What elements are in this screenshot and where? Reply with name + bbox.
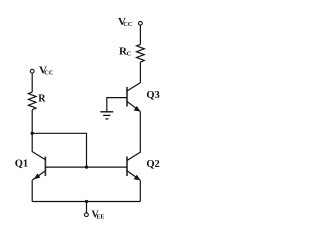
label VCC (left): [39, 65, 54, 77]
transistor Q1 (mirrored): [32, 151, 46, 180]
terminal VCC (left): [30, 69, 34, 73]
svg-text:R: R: [38, 94, 46, 105]
svg-text:C: C: [127, 50, 132, 57]
svg-text:CC: CC: [123, 21, 133, 28]
resistor RC: [137, 44, 145, 62]
label RC: [119, 46, 132, 58]
wire Q2 emitter down: [139, 180, 141, 201]
node A junction dot: [31, 132, 34, 135]
svg-text:Q1: Q1: [15, 159, 28, 170]
label Q1: [15, 159, 28, 170]
wire Q1 base to Q2 base: [45, 166, 127, 168]
svg-text:CC: CC: [44, 70, 54, 77]
label VCC (top right): [118, 16, 133, 28]
svg-text:Q3: Q3: [146, 90, 159, 101]
wire node A to Q1 collector: [31, 133, 33, 152]
base junction dot: [85, 165, 88, 168]
svg-text:EE: EE: [96, 215, 104, 221]
terminal VEE: [85, 213, 89, 217]
ground: [100, 112, 113, 119]
wire bottom rail: [32, 201, 140, 203]
wire Q3 emitter to Q2 collector: [139, 112, 141, 153]
wire node A to base junction (feedback): [32, 133, 86, 167]
label VEE: [92, 210, 105, 221]
svg-text:Q2: Q2: [146, 159, 159, 170]
wire RC to Q3 collector: [139, 62, 141, 83]
resistor R: [28, 92, 36, 110]
transistor Q3: [107, 83, 141, 112]
transistor Q2: [127, 152, 141, 180]
wire Q1 emitter down: [31, 180, 33, 201]
label R: [38, 94, 46, 105]
label Q2: [146, 159, 159, 170]
terminal VCC (top right): [139, 21, 143, 25]
wire Q3 base to ground: [106, 97, 108, 112]
label Q3: [146, 90, 159, 101]
wire R to node A: [31, 110, 33, 134]
wire VCC to RC: [139, 25, 141, 44]
wire to VEE terminal: [86, 202, 88, 213]
VEE junction dot: [85, 200, 88, 203]
wire VCC to R: [31, 73, 33, 92]
